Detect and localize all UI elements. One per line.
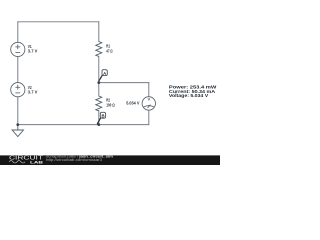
- svg-text:http://circuitlab.com/cmxaar3: http://circuitlab.com/cmxaar3: [46, 158, 102, 162]
- svg-text:B: B: [101, 114, 104, 119]
- svg-text:Voltage: 5.034 V: Voltage: 5.034 V: [169, 93, 208, 98]
- svg-text:A: A: [103, 71, 106, 76]
- svg-text:LAB: LAB: [30, 159, 43, 164]
- svg-text:5.034 V: 5.034 V: [126, 101, 139, 106]
- svg-text:3.7 V: 3.7 V: [28, 90, 38, 95]
- svg-text:3.7 V: 3.7 V: [28, 48, 38, 53]
- svg-text:47 Ω: 47 Ω: [106, 48, 113, 53]
- svg-text:100 Ω: 100 Ω: [106, 102, 115, 107]
